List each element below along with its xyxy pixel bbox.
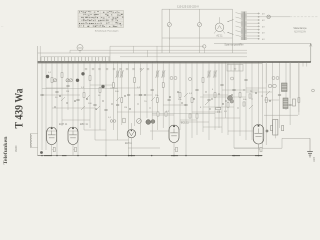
IF transformer coils bbox=[116, 70, 217, 78]
upper wire 2 bbox=[120, 56, 247, 58]
svg-text:T 439 Wa: T 439 Wa bbox=[11, 89, 25, 129]
antenna coil bbox=[77, 45, 83, 53]
fuse Si1 bbox=[167, 9, 171, 53]
coil pack contact row bbox=[41, 57, 110, 62]
secondary tap labels bbox=[262, 14, 265, 41]
paper background bbox=[0, 0, 320, 171]
detector diode circles bbox=[110, 120, 116, 123]
volume potentiometer bbox=[146, 120, 155, 125]
tube V1 ECH11 bbox=[47, 127, 57, 156]
svg-text:ECH 11: ECH 11 bbox=[59, 123, 68, 126]
magic eye label bbox=[125, 142, 132, 145]
left oscillator coil bbox=[31, 134, 38, 148]
aux terminal circle bbox=[312, 89, 315, 92]
bottom right wire bbox=[282, 138, 310, 151]
edition stamp bbox=[14, 145, 18, 152]
speaker wires bbox=[266, 62, 299, 112]
svg-text:Telefunken: Telefunken bbox=[3, 137, 9, 165]
bottom bus junctions bbox=[41, 155, 259, 156]
output cathode wire bbox=[234, 144, 282, 148]
svg-text:318: 318 bbox=[312, 157, 316, 162]
dial lamp bbox=[267, 15, 271, 19]
mains bottom wire bbox=[162, 38, 233, 40]
switch block label bbox=[234, 69, 237, 71]
left frame wire bbox=[38, 46, 41, 156]
bus stub contacts bbox=[85, 68, 149, 70]
svg-text:Skalenlampe: Skalenlampe bbox=[293, 28, 307, 30]
tube V2 EBF11 bbox=[68, 127, 78, 156]
resistors and capacitors on drops bbox=[40, 73, 300, 111]
lamp note text bbox=[293, 28, 307, 33]
title Telefunken bbox=[3, 137, 9, 165]
component value labels bbox=[48, 72, 253, 119]
tube V2 label bbox=[80, 123, 88, 126]
rectifier tube AZ11 bbox=[214, 17, 225, 33]
chassis earth symbol bbox=[307, 152, 313, 157]
tube V3 ECL11 bbox=[169, 125, 179, 156]
svg-text:Schaltung d. Fassungen: Schaltung d. Fassungen bbox=[95, 30, 119, 33]
tuning capacitor gang bbox=[46, 72, 105, 88]
interconnect wires bbox=[42, 85, 298, 148]
voltage selector bbox=[228, 20, 234, 35]
bottom chassis bus bbox=[38, 155, 263, 157]
coupling box bbox=[123, 118, 125, 123]
page number 318 bbox=[312, 157, 316, 162]
tube V3 label bbox=[181, 122, 189, 125]
speaker components bbox=[268, 84, 295, 106]
table caption text bbox=[95, 30, 119, 33]
svg-text:←: ← bbox=[1, 24, 4, 28]
main anode bus bbox=[38, 61, 311, 63]
mains voltage label bbox=[177, 4, 199, 8]
switch block bbox=[227, 65, 243, 72]
transformer secondary taps bbox=[247, 13, 260, 40]
svg-text:110 125 150 220 V: 110 125 150 220 V bbox=[177, 4, 199, 8]
transformer primary taps bbox=[236, 13, 241, 37]
svg-text:2M: 2M bbox=[66, 91, 69, 93]
mains input rail bbox=[162, 9, 233, 53]
horizontal capacitor bbox=[218, 111, 220, 113]
selector label bbox=[224, 44, 243, 47]
bus lower edge bbox=[38, 62, 262, 64]
output transformer bbox=[283, 98, 288, 109]
trimmer circle bbox=[137, 119, 142, 124]
lower components row bbox=[266, 126, 284, 133]
dial lamp wire bbox=[260, 16, 318, 18]
upper frame wire 2 bbox=[70, 50, 247, 53]
output transformer can bbox=[273, 120, 278, 139]
svg-text:AZ 11: AZ 11 bbox=[216, 35, 223, 38]
heater circle pairs bbox=[170, 61, 307, 80]
horizontal resistor bbox=[216, 108, 221, 110]
svg-text:EM 11: EM 11 bbox=[125, 142, 132, 145]
left margin mark bbox=[1, 24, 4, 28]
svg-text:ECL 11: ECL 11 bbox=[181, 122, 189, 125]
bottom bus heavy segments bbox=[44, 155, 262, 157]
rectifier label bbox=[216, 35, 223, 38]
upper mid wire bbox=[110, 46, 204, 62]
speaker pot cluster bbox=[228, 96, 234, 104]
drop wires from anode bus bbox=[41, 61, 299, 155]
crossing wires bbox=[42, 89, 259, 119]
power transformer Tr1 windings bbox=[241, 12, 247, 41]
cathode resistors bbox=[52, 147, 262, 151]
svg-text:EBF 11: EBF 11 bbox=[80, 123, 88, 126]
tube V1 label bbox=[59, 123, 68, 126]
tube socket connection table bbox=[78, 11, 124, 28]
svg-text:1M: 1M bbox=[124, 107, 127, 109]
adjustment arrows bbox=[61, 68, 270, 110]
HT supply wire bbox=[214, 43, 312, 62]
title T 439 Wa bbox=[11, 89, 25, 129]
svg-text:6,3 V 0,3 A: 6,3 V 0,3 A bbox=[294, 31, 306, 34]
fuse Si2 bbox=[197, 9, 201, 53]
phono jack bbox=[203, 45, 206, 53]
upper frame wire bbox=[38, 52, 247, 54]
junction specks bbox=[54, 89, 270, 109]
tube V4 output bbox=[253, 125, 264, 156]
anode voltage label bbox=[240, 44, 242, 46]
svg-text:39/40: 39/40 bbox=[14, 145, 18, 152]
ground blob bbox=[40, 151, 43, 154]
magic eye EM11 bbox=[127, 123, 135, 156]
field coil bbox=[282, 83, 288, 92]
mid link wires bbox=[134, 46, 157, 62]
